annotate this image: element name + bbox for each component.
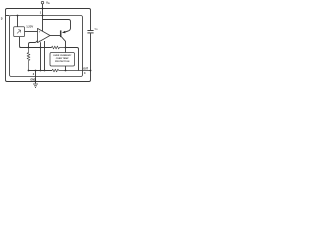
resistor R2 vertical bbox=[27, 48, 30, 71]
wire feedback to op-amp - input bbox=[29, 41, 38, 48]
node rail dot A bbox=[40, 70, 42, 72]
wire emitter feed loop bbox=[43, 20, 71, 33]
node VIN rail junction bbox=[42, 8, 44, 10]
svg-text:4: 4 bbox=[84, 72, 86, 75]
node collector/R1 junction bbox=[65, 47, 67, 49]
svg-text:3: 3 bbox=[1, 17, 3, 21]
wire protection box bottom bbox=[65, 66, 67, 71]
svg-text:OVER CURRENT/: OVER CURRENT/ bbox=[53, 55, 72, 57]
wire bandgap to op-amp + input bbox=[25, 31, 38, 33]
transistor Q1 PNP base bar bbox=[60, 30, 62, 37]
node gnd stub ext rail bbox=[35, 81, 37, 83]
resistor R3 horizontal on bottom rail bbox=[52, 69, 91, 72]
svg-text:OUT: OUT bbox=[83, 68, 88, 70]
node IC top edge junction bbox=[42, 15, 44, 17]
protection block U3 bbox=[50, 53, 75, 67]
wire right external vertical upper bbox=[90, 10, 92, 31]
wire GND bottom rail bbox=[6, 80, 91, 82]
svg-text:GND: GND bbox=[30, 78, 36, 81]
svg-text:1.23V: 1.23V bbox=[26, 24, 33, 28]
wire left external vertical bbox=[5, 10, 7, 81]
svg-text:OVER TEMP: OVER TEMP bbox=[56, 58, 69, 60]
node protection/rail junction bbox=[65, 70, 67, 72]
ground symbol bbox=[33, 84, 38, 88]
svg-text:+: + bbox=[39, 31, 41, 34]
wire VIN stem down to op-amp bbox=[42, 4, 44, 31]
wire pin3 stub bbox=[6, 15, 10, 17]
node gnd stub top bbox=[35, 70, 37, 72]
svg-text:2: 2 bbox=[33, 73, 35, 76]
wire bandgap top bbox=[17, 16, 19, 27]
node tap/R2 junction bbox=[28, 47, 30, 49]
wire op-amp output to base bbox=[50, 35, 60, 37]
wire internal bottom rail left bbox=[29, 70, 53, 72]
svg-text:PROTECTION: PROTECTION bbox=[55, 61, 70, 63]
terminal VIN circle bbox=[41, 1, 44, 4]
capacitor C output bbox=[87, 30, 93, 32]
transistor Q1 collector bbox=[61, 37, 65, 48]
wire op-amp lower rails to gnd net bbox=[40, 42, 42, 70]
wire out node to down corner bbox=[66, 48, 79, 71]
svg-text:CO: CO bbox=[95, 28, 99, 30]
op-amp U2 bbox=[38, 28, 51, 42]
node bandgap top junction bbox=[17, 15, 19, 17]
transistor Q1 emitter arrowhead bbox=[62, 31, 66, 34]
wire GND pin stub bbox=[35, 71, 37, 84]
bandgap reference box U1 bbox=[14, 27, 25, 37]
wire bandgap bottom to tap line bbox=[20, 37, 22, 48]
node opamp wire crossing bbox=[40, 47, 42, 49]
svg-text:VIN: VIN bbox=[46, 0, 50, 5]
resistor R1 horizontal on tap line bbox=[52, 46, 66, 49]
wire tap line left part bbox=[20, 47, 52, 49]
node OUT/cap junction bbox=[90, 70, 92, 72]
node R2 rail corner bbox=[28, 70, 30, 72]
wire VIN top rail bbox=[6, 9, 91, 11]
wire collector to protection box bbox=[65, 48, 67, 53]
node rail dot B bbox=[44, 70, 46, 72]
svg-text:-: - bbox=[39, 38, 40, 42]
wire right external vertical lower bbox=[90, 33, 92, 80]
svg-text:1: 1 bbox=[40, 12, 42, 15]
IC outline box bbox=[10, 16, 83, 77]
zener glyph inside bandgap bbox=[17, 30, 21, 34]
